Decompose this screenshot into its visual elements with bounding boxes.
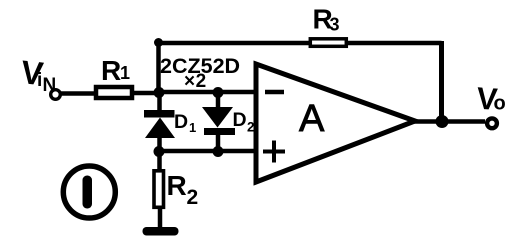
svg-text:3: 3 xyxy=(330,15,340,35)
svg-text:D: D xyxy=(233,109,247,131)
svg-text:o: o xyxy=(494,93,506,115)
svg-text:1: 1 xyxy=(189,120,196,135)
svg-text:×2: ×2 xyxy=(184,71,207,92)
svg-text:A: A xyxy=(299,98,325,140)
svg-text:i: i xyxy=(37,70,42,91)
svg-text:R: R xyxy=(101,55,121,86)
svg-text:N: N xyxy=(43,75,57,96)
svg-text:2: 2 xyxy=(187,186,199,209)
svg-text:D: D xyxy=(174,111,188,133)
svg-text:1: 1 xyxy=(120,63,130,83)
svg-text:2: 2 xyxy=(247,120,255,135)
svg-text:R: R xyxy=(167,170,187,201)
